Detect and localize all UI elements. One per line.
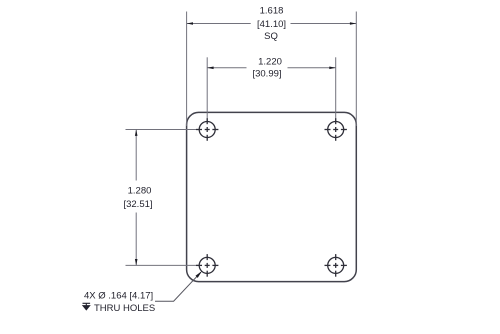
dimension line 1.220	[207, 67, 336, 69]
svg-text:1.618: 1.618	[260, 5, 284, 16]
hole H1 top-left	[196, 118, 218, 141]
extension line right (SQ dim)	[355, 12, 357, 127]
arrow down (1.280 dim)	[135, 259, 138, 265]
extension line left (SQ dim)	[186, 12, 188, 127]
hole H2 top-right	[325, 118, 347, 141]
extension line right (1.220 dim)	[335, 57, 337, 122]
dimension line 1.618 SQ	[187, 23, 357, 25]
svg-text:1.280: 1.280	[128, 185, 152, 196]
note text THRU HOLES with depth symbol	[83, 303, 156, 314]
svg-text:SQ: SQ	[264, 31, 278, 42]
arrow right (SQ dim)	[350, 22, 356, 25]
svg-text:[32.51]: [32.51]	[123, 199, 152, 210]
hole H3 bottom-left	[196, 254, 218, 277]
leader arrowhead	[196, 271, 203, 278]
hole H4 bottom-right	[325, 254, 347, 277]
dimension line 1.280	[135, 130, 137, 266]
extension line top (1.280 dim)	[126, 129, 199, 131]
arrow left (SQ dim)	[187, 22, 193, 25]
arrow left (1.220 dim)	[207, 67, 213, 70]
extension line bottom (1.280 dim)	[126, 264, 199, 266]
svg-text:4X Ø .164 [4.17]: 4X Ø .164 [4.17]	[84, 291, 153, 302]
svg-text:1.220: 1.220	[258, 57, 282, 68]
arrow right (1.220 dim)	[329, 67, 335, 70]
leader line (hole note)	[155, 272, 201, 301]
plate outline	[187, 112, 357, 281]
svg-text:THRU HOLES: THRU HOLES	[94, 303, 155, 314]
arrow up (1.280 dim)	[135, 130, 138, 136]
extension line left (1.220 dim)	[206, 57, 208, 122]
svg-text:[30.99]: [30.99]	[252, 69, 281, 80]
svg-text:[41.10]: [41.10]	[257, 19, 286, 30]
